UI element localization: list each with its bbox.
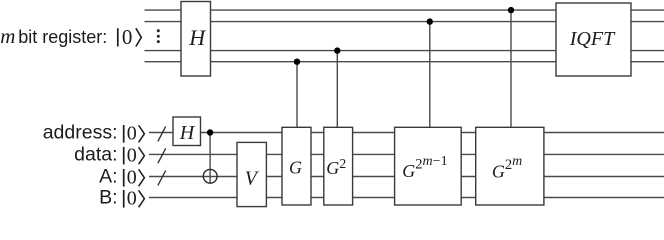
control dot on qubit 2	[427, 18, 433, 24]
gate G^2^m box	[476, 127, 544, 205]
control line from qubit m-1 to gate G^2	[336, 51, 338, 128]
control dot on qubit m	[294, 59, 300, 65]
svg-text:A:: A:	[99, 166, 117, 188]
svg-text:0: 0	[127, 188, 137, 210]
svg-text:G: G	[289, 158, 302, 178]
CNOT target on A wire	[203, 169, 217, 183]
svg-text:IQFT: IQFT	[569, 28, 616, 50]
svg-text:0: 0	[127, 145, 137, 167]
wire address	[149, 132, 664, 134]
gate G^2 box	[324, 127, 353, 205]
wire top register qubit m	[145, 61, 664, 63]
ket angle A	[139, 169, 145, 186]
ket bar address	[123, 125, 125, 143]
svg-text:data:: data:	[74, 144, 117, 166]
svg-text:H: H	[179, 122, 196, 144]
svg-text:bit register:: bit register:	[18, 27, 107, 47]
control line from qubit 1 to gate G^2^m	[510, 10, 512, 127]
ket angle top label	[136, 28, 141, 46]
gate V box	[237, 142, 266, 206]
svg-text:0: 0	[122, 25, 132, 49]
gate IQFT box	[556, 3, 631, 76]
vertical ellipsis top register	[157, 29, 160, 43]
svg-text:B:: B:	[99, 187, 117, 209]
gate G^2^m-1 box	[395, 127, 462, 205]
control line CNOT address to A	[209, 133, 211, 184]
svg-text:m: m	[0, 24, 15, 48]
gate H address box	[173, 117, 201, 146]
wire B	[149, 197, 664, 199]
bus slash on A wire	[158, 170, 166, 185]
svg-text:0: 0	[127, 123, 137, 145]
wire top register qubit 1	[145, 9, 664, 11]
gate G box	[282, 127, 311, 205]
svg-text:0: 0	[127, 167, 137, 189]
ket angle data	[139, 147, 145, 164]
bus slash on data wire	[158, 148, 166, 163]
gate H top register box	[181, 2, 211, 77]
control line from qubit m to gate G	[296, 62, 298, 128]
ket bar data	[123, 147, 125, 165]
ket bar top label	[117, 28, 119, 46]
control line from qubit 2 to gate G^2^m-1	[429, 22, 431, 128]
ket angle B	[139, 190, 145, 207]
control dot on qubit 1	[508, 7, 514, 13]
bus slash on address wire	[158, 126, 166, 141]
wire A	[149, 176, 664, 178]
control dot on qubit m-1	[334, 47, 340, 53]
wire data	[149, 153, 664, 155]
svg-text:address:: address:	[43, 122, 118, 144]
wire top register qubit 2	[145, 21, 664, 23]
wire top register qubit m-1	[145, 50, 664, 52]
ket bar A	[123, 169, 125, 187]
ket bar B	[123, 190, 125, 208]
control dot on address wire	[207, 129, 213, 135]
svg-text:H: H	[188, 25, 206, 50]
ket angle address	[139, 125, 145, 142]
